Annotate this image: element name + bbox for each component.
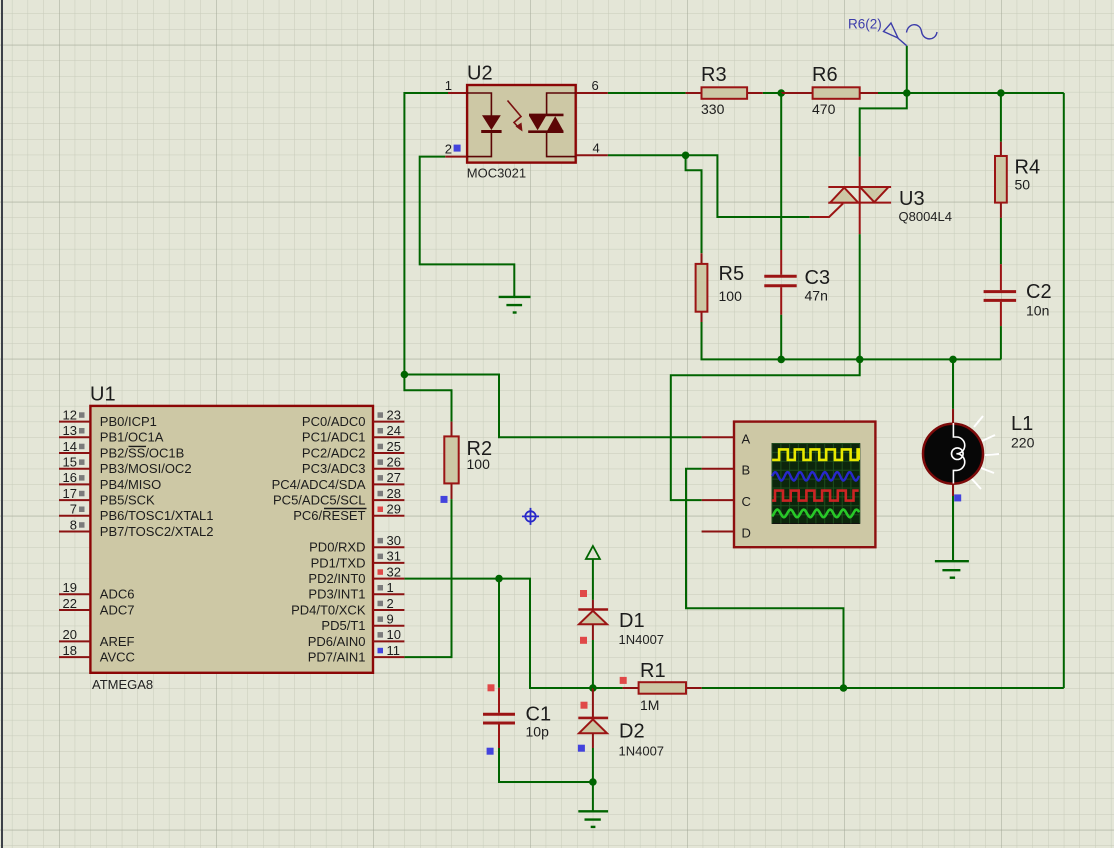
svg-text:PC5/ADC5/SCL: PC5/ADC5/SCL bbox=[273, 493, 365, 508]
capacitor C1 bbox=[483, 688, 515, 748]
U1 pin 31 PD1/TXD bbox=[311, 549, 405, 571]
svg-text:D: D bbox=[742, 526, 751, 541]
svg-text:24: 24 bbox=[387, 423, 401, 438]
marker C1 blue bbox=[487, 748, 494, 755]
U1 pin 11 PD7/AIN1 bbox=[308, 643, 405, 665]
U1 pin 1 PD3/INT1 bbox=[308, 580, 404, 602]
wire D1 to node bbox=[592, 640, 594, 688]
svg-text:100: 100 bbox=[719, 288, 743, 304]
svg-text:28: 28 bbox=[387, 486, 401, 501]
svg-text:R1: R1 bbox=[640, 660, 666, 682]
wire U2.6 to R3 bbox=[608, 92, 686, 94]
wire C1 branch top bbox=[498, 579, 500, 688]
svg-text:32: 32 bbox=[387, 564, 401, 579]
svg-text:6: 6 bbox=[592, 78, 599, 93]
U1 pin 2 PD4/T0/XCK bbox=[291, 596, 404, 618]
svg-text:26: 26 bbox=[387, 455, 401, 470]
ground for U2 pin 2 bbox=[499, 297, 531, 313]
U2 internal triac bbox=[547, 93, 576, 157]
svg-text:U2: U2 bbox=[467, 63, 493, 85]
svg-text:R3: R3 bbox=[701, 64, 727, 86]
svg-text:MOC3021: MOC3021 bbox=[467, 166, 526, 181]
triac U3 bbox=[810, 157, 891, 235]
marker D1 bottom red bbox=[580, 637, 587, 644]
node D2-C1-ground bbox=[589, 778, 597, 786]
marker U2 pin2 blue bbox=[454, 145, 461, 152]
resistor R1 bbox=[593, 682, 702, 694]
wire U2 pin1 net bbox=[404, 93, 448, 375]
svg-text:1M: 1M bbox=[640, 697, 659, 713]
node rail-U3 bbox=[856, 356, 864, 364]
wire A channel bbox=[404, 375, 701, 438]
U1 pin 30 PD0/RXD bbox=[309, 533, 404, 555]
svg-text:4: 4 bbox=[593, 140, 600, 155]
svg-text:L1: L1 bbox=[1011, 413, 1033, 435]
svg-text:U1: U1 bbox=[90, 384, 116, 406]
U1 pin 32 PD2/INT0 bbox=[308, 564, 404, 586]
svg-text:ATMEGA8: ATMEGA8 bbox=[92, 677, 153, 692]
wire C2 to rail bbox=[1000, 326, 1002, 359]
wire R4 to C2 bbox=[1000, 218, 1002, 264]
svg-text:12: 12 bbox=[63, 407, 77, 422]
svg-text:1N4007: 1N4007 bbox=[619, 632, 665, 647]
wire U2 pin4 net bbox=[608, 154, 686, 156]
diode D2 bbox=[578, 688, 608, 748]
capacitor C3 bbox=[764, 250, 796, 315]
wire right rail vertical bbox=[1063, 93, 1065, 688]
capacitor C2 bbox=[984, 264, 1017, 326]
U1 pin 22 ADC7 bbox=[59, 596, 134, 618]
marker D2 top red bbox=[581, 702, 588, 709]
svg-text:R4: R4 bbox=[1015, 157, 1041, 179]
svg-text:7: 7 bbox=[70, 502, 77, 517]
svg-text:18: 18 bbox=[63, 643, 77, 658]
wire C1 bottom bbox=[499, 748, 593, 782]
wire C3 bottom bbox=[780, 315, 782, 360]
svg-text:C3: C3 bbox=[805, 267, 831, 289]
sheet border bbox=[1, 0, 3, 848]
svg-text:PD4/T0/XCK: PD4/T0/XCK bbox=[291, 602, 366, 617]
U1 pin 26 PC3/ADC3 bbox=[302, 455, 404, 477]
svg-text:R5: R5 bbox=[719, 263, 745, 285]
op-to-coupler U2 body bbox=[467, 85, 576, 163]
svg-text:D1: D1 bbox=[619, 610, 645, 632]
svg-text:U3: U3 bbox=[899, 188, 925, 210]
U1 pin 27 PC4/ADC4/SDA bbox=[272, 470, 405, 492]
U1 pin 16 PB4/MISO bbox=[59, 470, 161, 492]
svg-text:29: 29 bbox=[387, 502, 401, 517]
svg-text:2: 2 bbox=[387, 596, 394, 611]
svg-text:PB0/ICP1: PB0/ICP1 bbox=[100, 414, 157, 429]
U1 pin 23 PC0/ADC0 bbox=[302, 407, 404, 429]
wire right rail bottom bbox=[844, 687, 1064, 689]
lamp L1 bbox=[923, 409, 983, 496]
svg-text:11: 11 bbox=[387, 643, 401, 658]
svg-text:10p: 10p bbox=[526, 724, 550, 740]
resistor R6 bbox=[781, 87, 878, 99]
wire R6 to right rail bbox=[875, 92, 1063, 94]
svg-text:PB7/TOSC2/XTAL2: PB7/TOSC2/XTAL2 bbox=[100, 524, 214, 539]
U1 pin 10 PD6/AIN0 bbox=[308, 627, 405, 649]
U2 pin 4 stub bbox=[576, 154, 608, 156]
wire D stub nub bbox=[702, 531, 710, 533]
wire R2 to pin11 bbox=[404, 499, 451, 657]
svg-text:19: 19 bbox=[63, 580, 77, 595]
svg-text:Q8004L4: Q8004L4 bbox=[899, 209, 953, 224]
U1 pin 20 AREF bbox=[59, 627, 135, 649]
resistor R4 bbox=[995, 142, 1007, 218]
svg-text:17: 17 bbox=[63, 486, 77, 501]
node R2 branch bbox=[401, 371, 409, 379]
svg-text:PD7/AIN1: PD7/AIN1 bbox=[308, 650, 366, 665]
marker C1 red bbox=[488, 684, 495, 691]
svg-text:PC6/RESET: PC6/RESET bbox=[293, 508, 365, 523]
svg-text:14: 14 bbox=[63, 439, 77, 454]
U1 pin 24 PC1/ADC1 bbox=[302, 423, 404, 445]
U1 pin 7 PB6/TOSC1/XTAL1 bbox=[59, 502, 213, 524]
U1 pin 13 PB1/OC1A bbox=[59, 423, 164, 445]
svg-text:23: 23 bbox=[387, 407, 401, 422]
svg-text:31: 31 bbox=[387, 549, 401, 564]
U2 light arrow bbox=[508, 101, 522, 130]
svg-text:220: 220 bbox=[1011, 435, 1035, 451]
svg-text:AVCC: AVCC bbox=[100, 650, 135, 665]
wire terminal to D1 bbox=[592, 559, 594, 600]
svg-text:100: 100 bbox=[467, 456, 491, 472]
wire to R2 bbox=[404, 375, 451, 422]
oscilloscope pins bbox=[702, 437, 734, 531]
marker D1 top red bbox=[580, 590, 587, 597]
U1 pin 15 PB3/MOSI/OC2 bbox=[59, 455, 192, 477]
wire R3 to R6 bbox=[763, 92, 813, 94]
wire C3 top bbox=[780, 93, 782, 250]
svg-text:13: 13 bbox=[63, 423, 77, 438]
node R4 branch bbox=[997, 89, 1005, 97]
U1 pin 12 PB0/ICP1 bbox=[59, 407, 157, 429]
wire lamp top bbox=[952, 359, 954, 409]
svg-text:PD2/INT0: PD2/INT0 bbox=[308, 571, 365, 586]
oscilloscope screen bbox=[772, 444, 860, 524]
svg-text:10n: 10n bbox=[1026, 303, 1049, 319]
ground for D2 bbox=[578, 811, 608, 827]
U1 pin 8 PB7/TOSC2/XTAL2 bbox=[59, 517, 213, 539]
oscilloscope channel labels bbox=[742, 431, 751, 540]
wire gate net bbox=[686, 155, 810, 217]
svg-text:47n: 47n bbox=[805, 288, 828, 304]
svg-text:2: 2 bbox=[445, 142, 452, 157]
svg-text:PD0/RXD: PD0/RXD bbox=[309, 540, 365, 555]
svg-text:PB6/TOSC1/XTAL1: PB6/TOSC1/XTAL1 bbox=[100, 508, 214, 523]
wire R5 to bottom rail bbox=[702, 322, 1001, 359]
U2 pin 6 stub bbox=[576, 92, 608, 94]
svg-text:9: 9 bbox=[387, 612, 394, 627]
marker lamp blue bbox=[954, 494, 961, 501]
svg-text:30: 30 bbox=[387, 533, 401, 548]
node B-R1 net bbox=[840, 684, 848, 692]
U2 pin 2 stub bbox=[445, 156, 467, 158]
svg-text:A: A bbox=[742, 431, 751, 446]
svg-text:27: 27 bbox=[387, 470, 401, 485]
svg-text:8: 8 bbox=[70, 517, 77, 532]
svg-text:50: 50 bbox=[1015, 177, 1031, 193]
U1 pin 18 AVCC bbox=[59, 643, 135, 665]
U1 pin 25 PC2/ADC2 bbox=[302, 439, 404, 461]
wire R1 to right rail bbox=[702, 687, 844, 689]
diode D1 bbox=[578, 600, 608, 640]
svg-text:1: 1 bbox=[445, 78, 452, 93]
svg-text:PC4/ADC4/SDA: PC4/ADC4/SDA bbox=[272, 477, 366, 492]
svg-text:ADC6: ADC6 bbox=[100, 587, 135, 602]
wire R4 top bbox=[1000, 93, 1002, 142]
crosshair origin marker bbox=[522, 508, 539, 525]
svg-text:PB2/SS/OC1B: PB2/SS/OC1B bbox=[100, 445, 185, 460]
marker R1 red bbox=[620, 677, 627, 684]
svg-text:PC3/ADC3: PC3/ADC3 bbox=[302, 461, 366, 476]
svg-text:PD3/INT1: PD3/INT1 bbox=[308, 587, 365, 602]
svg-text:PB1/OC1A: PB1/OC1A bbox=[100, 430, 164, 445]
svg-text:C2: C2 bbox=[1026, 281, 1052, 303]
svg-text:C1: C1 bbox=[526, 704, 552, 726]
svg-text:C: C bbox=[742, 494, 751, 509]
node C1 branch bbox=[495, 575, 503, 583]
svg-text:PB4/MISO: PB4/MISO bbox=[100, 477, 161, 492]
terminal R6(2) bbox=[884, 23, 938, 46]
svg-text:16: 16 bbox=[63, 470, 77, 485]
svg-text:1N4007: 1N4007 bbox=[619, 744, 665, 759]
svg-text:AREF: AREF bbox=[100, 634, 135, 649]
svg-text:R6(2): R6(2) bbox=[848, 17, 882, 32]
svg-text:PC0/ADC0: PC0/ADC0 bbox=[302, 414, 366, 429]
wire PD2 net bbox=[404, 579, 593, 688]
resistor R5 bbox=[696, 253, 708, 322]
marker D2 bottom blue bbox=[578, 745, 585, 752]
wire B channel bbox=[686, 469, 844, 688]
U1 pin 9 PD5/T1 bbox=[321, 612, 404, 634]
U2 pin 1 stub bbox=[448, 92, 467, 94]
svg-text:10: 10 bbox=[387, 627, 401, 642]
svg-text:PB3/MOSI/OC2: PB3/MOSI/OC2 bbox=[100, 461, 192, 476]
wire terminal drop bbox=[906, 46, 908, 93]
svg-text:PD1/TXD: PD1/TXD bbox=[311, 555, 366, 570]
svg-text:15: 15 bbox=[63, 455, 77, 470]
wire to R5 bbox=[686, 155, 702, 253]
wire U3 T1 bbox=[860, 93, 907, 157]
U1 pin 14 PB2/SS/OC1B bbox=[59, 439, 184, 461]
wire U3 T2 to rail bbox=[859, 234, 861, 359]
svg-text:PC2/ADC2: PC2/ADC2 bbox=[302, 445, 366, 460]
node rail-C3 bbox=[777, 356, 785, 364]
svg-text:PC1/ADC1: PC1/ADC1 bbox=[302, 430, 366, 445]
terminal arrow D1 top bbox=[586, 546, 600, 559]
node rail-lamp bbox=[949, 356, 957, 364]
resistor R2 bbox=[444, 422, 458, 500]
svg-text:B: B bbox=[742, 463, 751, 478]
svg-text:ADC7: ADC7 bbox=[100, 602, 135, 617]
node R3-R6-C3 bbox=[777, 89, 785, 97]
svg-text:PD6/AIN0: PD6/AIN0 bbox=[308, 634, 366, 649]
node U2.4 branch bbox=[682, 152, 690, 160]
node R6-terminal bbox=[903, 89, 911, 97]
svg-text:1: 1 bbox=[387, 580, 394, 595]
svg-text:330: 330 bbox=[701, 101, 725, 117]
U1 pin 17 PB5/SCK bbox=[59, 486, 155, 508]
oscilloscope body bbox=[734, 422, 875, 548]
wire U2 pin2 to ground bbox=[420, 157, 515, 297]
svg-text:470: 470 bbox=[812, 101, 836, 117]
svg-text:PB5/SCK: PB5/SCK bbox=[100, 493, 155, 508]
wire C channel bbox=[671, 359, 860, 500]
node D1-D2-R1 bbox=[589, 684, 597, 692]
svg-text:22: 22 bbox=[63, 596, 77, 611]
U1 pin 19 ADC6 bbox=[59, 580, 134, 602]
ground for lamp bbox=[935, 561, 969, 578]
wire D2 to ground node bbox=[592, 748, 594, 811]
svg-text:20: 20 bbox=[63, 627, 77, 642]
marker R2 blue bbox=[441, 496, 448, 503]
wire lamp to ground bbox=[952, 496, 954, 561]
svg-text:25: 25 bbox=[387, 439, 401, 454]
svg-text:D2: D2 bbox=[619, 721, 645, 743]
lamp rays bbox=[972, 416, 999, 489]
svg-text:R6: R6 bbox=[812, 64, 838, 86]
U1 pin 29 PC6/RESET bbox=[293, 502, 404, 524]
U2 internal LED bbox=[467, 93, 491, 157]
microcontroller U1 body bbox=[90, 406, 373, 673]
U1 pin 28 PC5/ADC5/SCL bbox=[273, 486, 404, 508]
resistor R3 bbox=[686, 87, 763, 99]
svg-text:PD5/T1: PD5/T1 bbox=[321, 618, 365, 633]
